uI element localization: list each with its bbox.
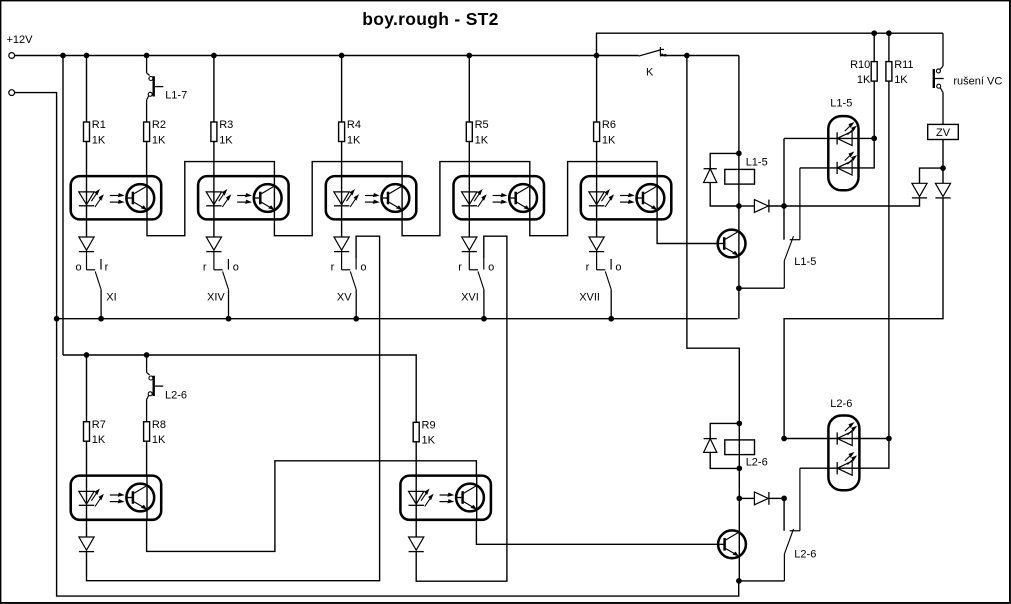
diode D4 <box>462 237 477 252</box>
svg-text:1K: 1K <box>602 134 616 146</box>
node bus junctions <box>61 53 690 58</box>
node rail junctions <box>872 31 891 36</box>
wire L2-6 LED1 row <box>784 438 889 440</box>
resistor R9 <box>413 420 435 447</box>
optocoupler U5 <box>581 176 672 219</box>
wire diode row 2 to L2-6 tap <box>769 497 784 499</box>
wire R2 to opto U1 collector <box>146 142 148 177</box>
wire emitter junction to L1-5 contact common <box>739 287 784 289</box>
svg-text:R7: R7 <box>92 419 106 431</box>
wire R5 to opto LED <box>468 142 470 238</box>
node L2-6 LED left <box>782 436 787 441</box>
wire return bus <box>57 318 738 320</box>
svg-text:R10: R10 <box>850 59 870 71</box>
switch L1-5 contact <box>784 168 816 288</box>
node diode row 2 <box>737 496 742 501</box>
svg-text:K: K <box>646 66 654 78</box>
switch XV <box>331 251 367 319</box>
node Q1 emitter junction <box>737 286 742 291</box>
wire +12V bus <box>15 55 639 57</box>
wire R4 feed <box>341 56 343 123</box>
wire U7 emitter to Q2 base <box>476 520 718 545</box>
indicator L1-5 LED block <box>828 98 858 191</box>
switch L2-6 contact <box>784 468 816 581</box>
svg-text:XVII: XVII <box>579 292 600 304</box>
resistor R7 <box>84 419 106 446</box>
optocoupler U6 <box>71 476 162 520</box>
switch XI <box>76 251 117 319</box>
wire diode row to ZV diodes <box>769 198 920 206</box>
svg-text:1K: 1K <box>347 134 361 146</box>
wire R10 feed <box>873 33 875 61</box>
wire L1-5 contact fixed a <box>783 206 785 240</box>
svg-text:r: r <box>458 262 462 274</box>
wire emitter junction to L2-6 contact common <box>739 580 785 582</box>
wire R6 to opto LED <box>596 142 598 238</box>
svg-text:o: o <box>76 262 82 274</box>
wire top rail <box>597 33 944 55</box>
svg-text:1K: 1K <box>422 435 436 447</box>
svg-text:r: r <box>331 262 335 274</box>
svg-text:1K: 1K <box>857 74 871 86</box>
terminal T2 return <box>9 90 15 96</box>
resistor R4 <box>339 119 361 146</box>
diode D14 <box>912 168 943 198</box>
svg-text:1K: 1K <box>92 134 106 146</box>
wire R10 to LED1 row <box>873 81 875 138</box>
diode D5 <box>589 237 604 252</box>
diode D7 <box>409 537 424 552</box>
svg-text:1K: 1K <box>475 134 489 146</box>
switch XVII <box>579 251 621 319</box>
svg-text:r: r <box>203 262 207 274</box>
svg-text:R9: R9 <box>422 420 436 432</box>
resistor R5 <box>466 119 488 146</box>
transistor Q1 <box>718 230 746 258</box>
wire bus end down to relay K1 and Q1 <box>738 56 740 319</box>
resistor R1 <box>84 119 106 146</box>
node XV on return bus <box>354 316 359 321</box>
svg-text:1K: 1K <box>219 134 233 146</box>
svg-text:R1: R1 <box>92 119 106 131</box>
diode D3 <box>334 237 349 252</box>
node XI on return bus <box>99 316 104 321</box>
svg-text:XV: XV <box>337 292 352 304</box>
svg-text:R6: R6 <box>602 119 616 131</box>
wire R1 to opto U1 LED and diode D1 <box>86 142 88 238</box>
node XVII on return bus <box>609 316 614 321</box>
svg-text:R4: R4 <box>347 119 361 131</box>
svg-text:o: o <box>488 262 494 274</box>
transistor L1-7 <box>147 56 188 123</box>
wire R9 to opto U7 LED <box>415 442 417 537</box>
svg-text:o: o <box>233 262 239 274</box>
svg-text:1K: 1K <box>894 74 908 86</box>
diode D13 series <box>739 200 769 213</box>
relay K2 L2-6 <box>725 440 768 469</box>
svg-text:1K: 1K <box>152 134 166 146</box>
terminal T1 +12V <box>9 53 15 59</box>
node XVI on return bus <box>482 316 487 321</box>
svg-text:rušení VC: rušení VC <box>953 75 1002 87</box>
resistor R11 <box>886 59 914 86</box>
wire L2-6 LED2 row <box>800 439 889 469</box>
wire L2-6 contact fixed a <box>783 498 785 530</box>
svg-text:+12V: +12V <box>7 34 34 46</box>
resistor R10 <box>850 59 877 86</box>
node relay K2 top <box>737 421 742 426</box>
optocoupler U7 <box>400 476 491 520</box>
wire L1-5 LED2 row <box>800 138 874 168</box>
wire U5 emitter to Q1 base <box>657 219 718 243</box>
wire U2 emitter to U3 collector <box>274 162 402 236</box>
wire R4 to opto LED <box>341 142 343 238</box>
svg-text:boy.rough - ST2: boy.rough - ST2 <box>362 9 498 29</box>
block ZV <box>928 124 959 139</box>
node L1-5 LED right <box>872 136 877 141</box>
wire XVI contact to U7 diode return <box>416 236 507 581</box>
wire R7 feed <box>86 355 88 422</box>
wire L1-5 LED1 row <box>784 137 874 139</box>
optocoupler U3 <box>326 176 417 219</box>
wire R7 to opto U6 LED and diode D6 <box>86 441 88 537</box>
svg-text:1K: 1K <box>152 434 166 446</box>
resistor R6 <box>594 119 616 146</box>
diode D6 <box>79 537 94 552</box>
node return bus left <box>54 316 59 321</box>
wire R11 down to L2-6 LED1 row <box>888 81 890 438</box>
svg-text:XI: XI <box>106 292 116 304</box>
indicator L2-6 LED block <box>828 398 859 490</box>
node relay K1 bottom <box>737 204 742 209</box>
node L2-6 LED right <box>887 436 892 441</box>
node R7 feed <box>84 353 89 358</box>
svg-text:L2-6: L2-6 <box>746 457 768 469</box>
diode D17 series <box>739 492 769 505</box>
wire U1 emitter to U2 collector <box>147 162 274 236</box>
transistor rušení VC <box>934 33 944 124</box>
wire ZV to diode pair node <box>942 140 944 169</box>
svg-text:R8: R8 <box>152 419 166 431</box>
relay K1 L1-5 <box>725 157 768 184</box>
node L1-5 LED1 tap <box>782 204 787 209</box>
diode D2 <box>206 237 221 252</box>
svg-text:R5: R5 <box>475 119 489 131</box>
node L2-6 LED1 tap <box>782 496 787 501</box>
diode D12 flyback K1 <box>704 153 739 206</box>
svg-text:L2-6: L2-6 <box>794 548 816 560</box>
optocoupler U1 <box>71 176 162 219</box>
switch K <box>639 47 666 56</box>
wire R11 feed <box>888 33 890 61</box>
svg-text:L1-5: L1-5 <box>794 256 816 268</box>
svg-text:R2: R2 <box>152 119 166 131</box>
wire T2 to return spine <box>15 93 739 596</box>
node L2-6 transistor feed <box>144 353 149 358</box>
svg-text:R11: R11 <box>894 59 913 71</box>
svg-text:L2-6: L2-6 <box>830 398 852 410</box>
wire L2-6 bus <box>63 355 416 422</box>
svg-text:XVI: XVI <box>461 292 479 304</box>
wire bus right of K <box>660 55 739 57</box>
wire U3 emitter to U4 collector <box>402 162 530 236</box>
wire R3 to opto LED <box>213 142 215 238</box>
wire R8 to opto U6 collector <box>146 441 148 475</box>
resistor R3 <box>211 119 233 146</box>
switch XIV <box>203 251 239 319</box>
node Q2 emitter junction <box>737 579 742 584</box>
wire R5 feed <box>468 56 470 123</box>
svg-text:r: r <box>586 262 590 274</box>
wire U4 emitter to U5 collector <box>530 162 657 236</box>
wire bus to L2-6 bus <box>62 56 64 356</box>
transistor Q2 <box>718 530 746 558</box>
node diode pair <box>941 166 946 171</box>
wire U6 emitter to U7 collector <box>147 461 477 552</box>
diode D1 <box>79 237 94 252</box>
diode D15 <box>935 168 950 198</box>
svg-text:L1-7: L1-7 <box>165 89 187 101</box>
node relay K1 top <box>737 151 742 156</box>
svg-text:o: o <box>615 262 621 274</box>
wire R6 feed <box>596 56 598 123</box>
wire R1 feed <box>86 56 88 123</box>
svg-text:XIV: XIV <box>207 292 225 304</box>
diode D16 flyback K2 <box>704 423 740 468</box>
svg-text:o: o <box>360 262 366 274</box>
wire bus to relay K2 spine <box>687 56 739 581</box>
wire R3 feed <box>213 56 215 123</box>
node XIV on return bus <box>226 316 231 321</box>
resistor R2 <box>144 119 166 146</box>
switch XVI <box>458 251 494 319</box>
svg-text:L1-5: L1-5 <box>746 157 768 169</box>
resistor R8 <box>144 419 166 446</box>
optocoupler U4 <box>454 176 545 219</box>
svg-text:r: r <box>105 262 109 274</box>
svg-text:ZV: ZV <box>936 127 951 139</box>
wire XV contact to U6 diode return <box>87 236 380 581</box>
svg-text:L2-6: L2-6 <box>165 389 187 401</box>
node relay K2 bottom <box>737 466 742 471</box>
wire D15 to L2-6 LED1 tap <box>784 198 943 439</box>
transistor L2-6 <box>147 355 187 422</box>
svg-text:R3: R3 <box>219 119 233 131</box>
optocoupler U2 <box>198 176 289 219</box>
svg-text:L1-5: L1-5 <box>830 98 852 110</box>
svg-text:1K: 1K <box>92 434 106 446</box>
wire tap up to L1-5 LED1 row <box>783 138 785 206</box>
